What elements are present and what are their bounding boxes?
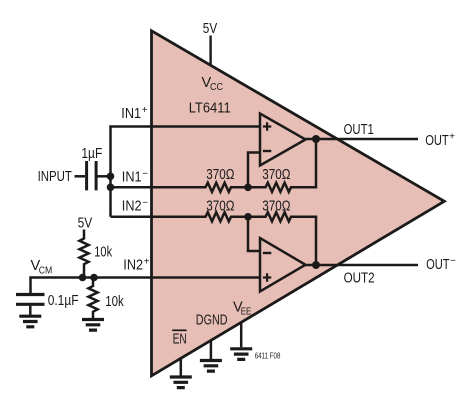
svg-text:+: + xyxy=(449,132,455,143)
svg-text:1µF: 1µF xyxy=(81,146,102,162)
node capacitor junction xyxy=(107,173,115,181)
pin label EN (active low) xyxy=(172,330,187,347)
pin VCC xyxy=(202,75,224,93)
svg-text:+: + xyxy=(142,105,148,116)
pin VEE xyxy=(233,300,252,318)
svg-text:−: − xyxy=(142,169,148,180)
svg-text:INPUT: INPUT xyxy=(38,169,72,185)
node OUT1 xyxy=(312,135,320,143)
svg-text:CC: CC xyxy=(210,82,223,93)
ground (C2) xyxy=(19,316,41,327)
wire IN2- row xyxy=(111,216,204,219)
svg-text:370Ω: 370Ω xyxy=(206,198,234,214)
pin label OUT- xyxy=(426,255,456,273)
wire IN1- row xyxy=(111,186,204,189)
svg-text:IN1: IN1 xyxy=(122,170,142,186)
pin label IN1+ xyxy=(121,105,148,122)
svg-text:5V: 5V xyxy=(203,21,218,37)
wire OUT2 xyxy=(305,264,418,267)
node R6 junction xyxy=(90,274,98,282)
ground (VEE) xyxy=(230,349,252,360)
resistor R2 370R (feedback, ch1) xyxy=(262,167,292,192)
wire VEE to ground xyxy=(240,322,243,348)
svg-text:0.1µF: 0.1µF xyxy=(48,293,79,309)
svg-text:5V: 5V xyxy=(78,215,93,231)
resistor R6 10k (pull-down) xyxy=(88,278,124,314)
wire 5V to R5 xyxy=(83,230,86,238)
wire C1 to input node xyxy=(98,175,111,178)
svg-text:6411 F08: 6411 F08 xyxy=(255,352,281,361)
pin label IN2- xyxy=(122,197,149,214)
resistor R1 370R (gain, ch1) xyxy=(204,167,235,192)
wire R3 to node xyxy=(233,216,264,219)
svg-text:−: − xyxy=(450,255,456,266)
wire IN1+ xyxy=(111,127,261,217)
pin label OUT+ xyxy=(425,132,455,150)
svg-text:DGND: DGND xyxy=(196,312,228,328)
wire node to inverting input ch1 xyxy=(248,153,260,188)
svg-text:IN2: IN2 xyxy=(123,258,143,274)
wire C2 to ground xyxy=(29,306,32,316)
wire INPUT to C1 xyxy=(75,175,86,178)
capacitor C2 0.1uF xyxy=(16,293,79,309)
wire R5 to VCM node xyxy=(83,268,86,278)
svg-text:−: − xyxy=(142,197,148,208)
wire VCM / IN2+ xyxy=(31,278,261,294)
pin label IN1- xyxy=(122,169,149,186)
op-amp U1 LT6411 body (large shaded triangle) xyxy=(152,31,445,376)
svg-text:OUT2: OUT2 xyxy=(344,270,375,286)
wire 5V supply to VCC xyxy=(209,36,211,66)
svg-text:IN2: IN2 xyxy=(122,199,142,215)
wire R2 to OUT1 feedback xyxy=(293,139,317,187)
label VCM xyxy=(31,258,53,276)
svg-text:LT6411: LT6411 xyxy=(189,100,231,116)
node IN1- junction xyxy=(107,184,115,192)
svg-text:EE: EE xyxy=(241,307,252,318)
pin label IN2+ xyxy=(123,257,150,274)
wire EN to ground xyxy=(180,357,183,376)
wire R6 to ground xyxy=(92,314,95,320)
svg-text:10k: 10k xyxy=(94,245,112,261)
svg-text:370Ω: 370Ω xyxy=(262,198,290,214)
resistor R5 10k (pull-up) xyxy=(79,237,112,268)
svg-text:10k: 10k xyxy=(105,294,124,310)
wire R1 to node xyxy=(233,186,264,189)
op-amp U1b (channel 2) xyxy=(260,238,306,292)
ground (R6) xyxy=(82,320,104,331)
node OUT2 xyxy=(312,261,320,269)
node summing ch1 xyxy=(244,184,252,192)
resistor R3 370R (gain, ch2) xyxy=(204,198,235,221)
ground (DGND) xyxy=(200,361,222,372)
svg-text:370Ω: 370Ω xyxy=(262,167,290,183)
svg-text:OUT: OUT xyxy=(425,133,449,149)
resistor R4 370R (feedback, ch2) xyxy=(262,198,292,221)
node summing ch2 xyxy=(244,213,252,221)
capacitor C1 1uF xyxy=(81,146,102,190)
wire R4 to OUT2 feedback xyxy=(293,217,317,265)
node R5 junction xyxy=(79,274,87,282)
svg-text:IN1: IN1 xyxy=(121,106,141,122)
wire OUT1 xyxy=(305,138,418,141)
wire DGND to ground xyxy=(210,340,213,360)
ground (EN) xyxy=(170,377,192,388)
svg-text:CM: CM xyxy=(39,265,53,276)
svg-text:+: + xyxy=(144,257,150,268)
wire node to inverting input ch2 xyxy=(248,217,260,251)
svg-text:370Ω: 370Ω xyxy=(206,167,234,183)
svg-text:OUT: OUT xyxy=(426,257,450,273)
svg-text:OUT1: OUT1 xyxy=(344,122,374,138)
op-amp U1a (channel 1) xyxy=(260,114,306,166)
svg-text:EN: EN xyxy=(173,331,187,347)
